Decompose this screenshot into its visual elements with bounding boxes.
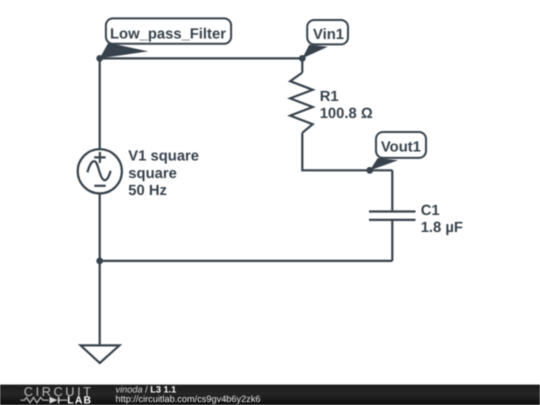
svg-text:V1 square: V1 square bbox=[128, 149, 199, 165]
net label Vin1 bbox=[302, 20, 348, 58]
net label Vout1 bbox=[370, 132, 426, 170]
voltage source V1 bbox=[78, 149, 122, 193]
value label: C1 "C1 / 1.8 &#181;F" bbox=[421, 203, 463, 236]
svg-text:50 Hz: 50 Hz bbox=[128, 183, 167, 199]
wire: bottom net from ground junction to C1 bottom bbox=[100, 260, 393, 262]
value label: V1 "V1 square / square / 50 Hz" bbox=[128, 149, 199, 199]
node: junction dot at Vin1 bbox=[299, 55, 306, 62]
wire: C1 top lead bbox=[391, 170, 393, 210]
net label Low_pass_Filter bbox=[100, 18, 231, 58]
CircuitLab logo bbox=[21, 384, 94, 405]
svg-text:LAB: LAB bbox=[67, 395, 92, 405]
wire: R1 bottom lead to corner then right to C1 top lead bbox=[302, 133, 392, 171]
svg-text:Low_pass_Filter: Low_pass_Filter bbox=[110, 26, 226, 42]
node: junction dot at ground net bbox=[96, 258, 103, 265]
footer bar bbox=[0, 385, 540, 405]
svg-text:C1: C1 bbox=[421, 203, 440, 219]
value label: R1 "R1 / 100.8 &#937;" bbox=[320, 89, 373, 122]
svg-text:Vout1: Vout1 bbox=[381, 139, 421, 155]
node: junction dot at Vout1 bbox=[366, 167, 373, 174]
svg-text:http://circuitlab.com/cs9gv4b6: http://circuitlab.com/cs9gv4b6y2zk6 bbox=[116, 394, 261, 404]
capacitor C1 bbox=[369, 212, 416, 220]
node: junction dot at node A (top-left) bbox=[96, 55, 103, 62]
svg-text:Vin1: Vin1 bbox=[313, 27, 344, 43]
wire: V1 minus terminal down to ground junction and on to ground bbox=[99, 193, 101, 345]
wire: top net from node A to Vin1 node bbox=[100, 57, 303, 59]
svg-text:100.8 Ω: 100.8 Ω bbox=[320, 106, 373, 122]
svg-text:R1: R1 bbox=[320, 89, 339, 105]
ground bbox=[81, 345, 120, 363]
wire: node A down to V1 plus terminal bbox=[99, 58, 101, 149]
wire: Vin1 node down to R1 top lead bbox=[301, 58, 303, 72]
footer attribution text bbox=[116, 384, 261, 403]
resistor R1 bbox=[290, 73, 313, 133]
svg-text:1.8 µF: 1.8 µF bbox=[421, 220, 463, 236]
wire: C1 bottom lead bbox=[391, 221, 393, 261]
svg-text:square: square bbox=[128, 166, 177, 182]
